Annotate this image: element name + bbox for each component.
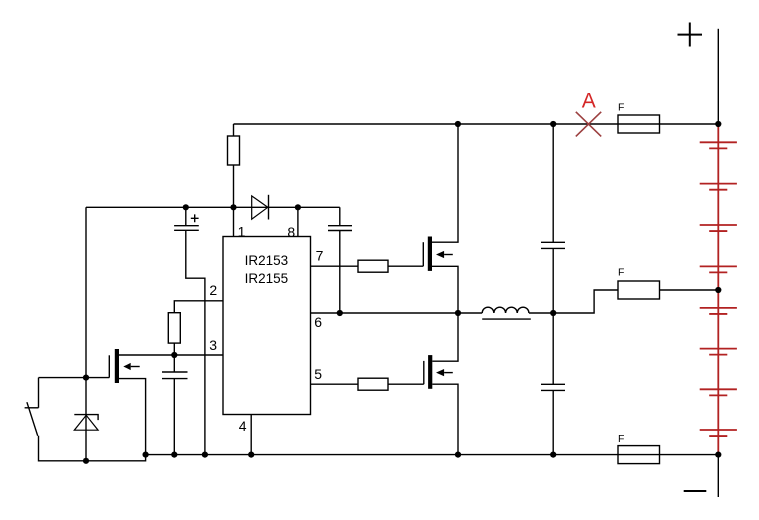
svg-text:A: A [582,90,596,113]
svg-text:1: 1 [238,223,246,239]
svg-text:6: 6 [314,314,322,330]
svg-text:F: F [618,102,624,114]
svg-text:F: F [618,433,624,445]
svg-text:IR2153: IR2153 [245,253,289,268]
svg-text:7: 7 [316,247,324,263]
svg-text:8: 8 [287,224,295,240]
svg-text:5: 5 [314,366,322,382]
svg-text:2: 2 [209,282,217,298]
svg-text:3: 3 [209,337,217,353]
svg-text:4: 4 [239,418,247,434]
svg-text:F: F [618,267,624,279]
svg-text:IR2155: IR2155 [245,271,289,286]
